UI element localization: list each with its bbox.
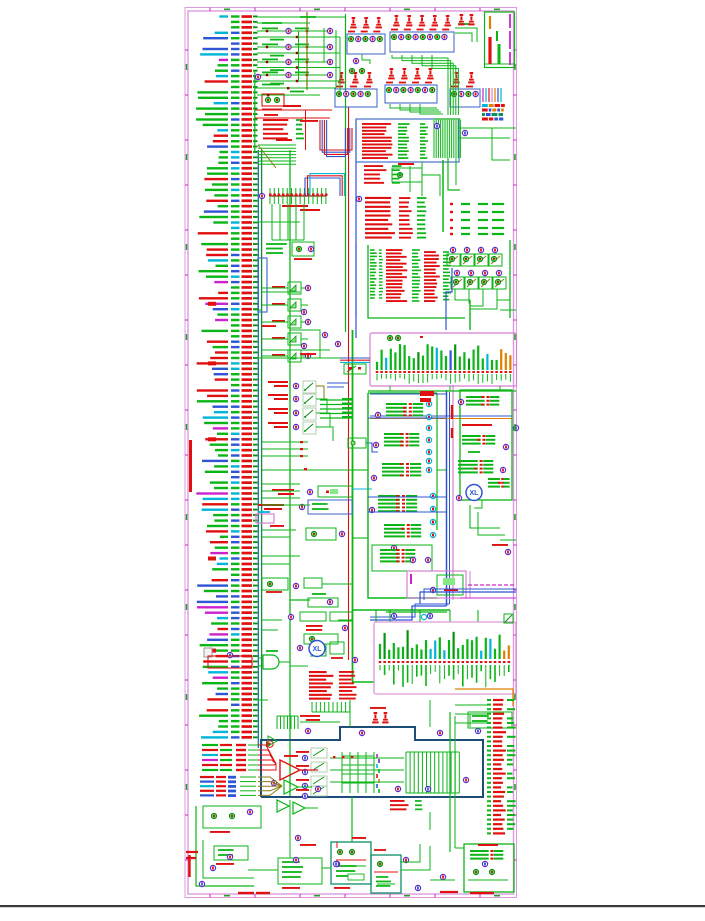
U4 right pins <box>443 251 449 253</box>
resistor ladder RN2 <box>258 144 296 146</box>
U5 cluster1 <box>386 403 407 405</box>
ram matrix <box>309 671 327 673</box>
alarm net box <box>208 656 252 668</box>
relay array K2-K5 <box>268 381 288 383</box>
net list block <box>365 197 391 199</box>
blue S wire <box>446 268 452 330</box>
top extra texts <box>300 120 318 122</box>
right list feeds <box>455 704 487 706</box>
teal box2 wires <box>377 883 395 885</box>
violet ref 8 <box>255 74 260 79</box>
pre comb <box>276 716 278 729</box>
olive bus x307 <box>306 12 308 90</box>
timer cluster U7 <box>290 599 310 601</box>
input list A <box>202 744 218 746</box>
transistor cells T-row <box>450 247 455 252</box>
border frame outer <box>185 8 517 898</box>
U5 cluster3 <box>382 463 404 465</box>
mid-left box <box>306 528 336 540</box>
U5 cluster5 <box>384 524 405 526</box>
ladder circled refs <box>286 28 291 33</box>
wire color legend <box>482 88 484 102</box>
navy comb block <box>405 752 407 793</box>
wire bundle RB2 <box>305 178 340 196</box>
opamp A1 <box>280 760 300 780</box>
inline jumper box <box>204 648 212 657</box>
switch S1 <box>344 364 366 374</box>
U6 cluster1 <box>466 396 485 398</box>
regulator T1 <box>331 842 371 884</box>
xl2 refs <box>352 657 357 662</box>
connector CN1 <box>370 333 517 386</box>
logic cluster A <box>266 243 287 245</box>
link wires B <box>352 469 368 471</box>
checker icon <box>535 616 537 618</box>
navy cross wires <box>330 757 404 759</box>
U6 right wires <box>512 429 516 431</box>
pre refs <box>305 728 310 733</box>
transistor bank Q6 group <box>455 72 459 74</box>
svg-text:XL: XL <box>470 490 480 497</box>
relay K1 cluster <box>392 168 422 182</box>
green bus D x352 <box>352 330 354 682</box>
green rail y612 <box>386 611 447 613</box>
cyan ref circles 2 <box>430 493 435 498</box>
left net label column <box>219 15 228 17</box>
transistor bank Q1 group <box>352 17 356 19</box>
navy refs <box>315 786 320 791</box>
U6 cluster3 <box>458 460 478 462</box>
mcu block U5 <box>368 393 437 598</box>
ladder joins <box>335 30 337 88</box>
ic U3 box <box>356 119 459 162</box>
logic B2 <box>308 500 352 514</box>
ram comb <box>311 702 313 712</box>
bank2 staircase wires <box>392 55 448 115</box>
orange exit wire <box>455 689 513 706</box>
page bottom edge <box>0 905 705 907</box>
magenta dash right <box>468 584 472 586</box>
pa block U6 <box>460 390 512 500</box>
J2 ref circle <box>259 193 264 198</box>
post navy rows <box>390 800 405 802</box>
psu box <box>464 844 514 892</box>
margin label 2 <box>188 855 191 877</box>
navy color stubs <box>376 754 378 758</box>
green enclosure left <box>255 87 301 89</box>
title block <box>485 12 515 68</box>
CN1 drops <box>389 386 391 391</box>
bottom extra wires <box>248 869 262 871</box>
red bus x348 <box>348 107 350 660</box>
U4 red matrix <box>386 249 403 251</box>
sub box B3 <box>203 806 261 828</box>
U6 label <box>462 424 492 426</box>
comb drop <box>448 158 460 190</box>
caption bottom right <box>440 891 458 893</box>
diode feed wires <box>262 287 284 289</box>
right green vert x510 <box>509 240 511 318</box>
bottom caption mid <box>300 844 316 846</box>
tr corner stacks <box>460 14 464 16</box>
opamp A3 <box>277 800 289 812</box>
mid-left wires1 <box>262 441 308 443</box>
CN1 bottom rails <box>368 390 516 392</box>
caption bottom left <box>238 892 254 894</box>
transistor bank Q2 group <box>395 15 399 17</box>
connector J2 <box>270 195 326 197</box>
io bus pair <box>257 150 259 748</box>
ic U4 box <box>368 245 465 318</box>
spare gate XL1 <box>466 485 482 501</box>
ic U2 pin rows <box>263 119 288 121</box>
mid refs <box>322 332 327 337</box>
left wire tree <box>196 806 254 886</box>
mid wires <box>290 330 320 358</box>
magenta box M1 <box>407 571 466 598</box>
cn2 drop wires <box>389 610 391 622</box>
frame ruler ticks <box>185 49 188 51</box>
diode array D1-D5 <box>272 286 285 288</box>
right bus pair <box>449 712 451 852</box>
U6 red tag <box>420 391 434 396</box>
u3 sub rows <box>364 165 383 167</box>
long links mid2 <box>262 469 352 471</box>
net list ref <box>356 196 361 201</box>
bank5 staircase wires <box>390 104 437 108</box>
and gate G1 <box>263 655 279 669</box>
ladder extra rows <box>257 87 336 89</box>
spare gate XL2 <box>309 641 325 657</box>
cn2 icon <box>539 617 541 619</box>
top first row labels <box>262 22 282 24</box>
comb right wires <box>459 127 516 129</box>
input wire ladder <box>257 30 332 32</box>
wire bundle RB1 <box>320 120 352 150</box>
sensor B1 <box>348 438 366 448</box>
green bus B x290 <box>289 150 291 797</box>
connector CN2 <box>374 622 516 694</box>
vertical comb bus <box>433 120 435 158</box>
red wire row <box>255 109 332 111</box>
navy switches <box>311 748 327 758</box>
mux row <box>262 578 288 590</box>
U5 cluster4 <box>378 495 400 497</box>
U5 inner box <box>372 545 432 571</box>
blue bus x356 <box>355 120 357 338</box>
blue route down <box>370 606 447 620</box>
ram label <box>300 715 320 717</box>
bottom cluster BL1 <box>214 846 248 860</box>
tr corner wires <box>455 28 477 42</box>
transistor bank Q5 group <box>390 68 394 70</box>
U4 left pin comb <box>370 249 375 251</box>
pink part P1 <box>256 514 274 523</box>
pink bus x453 <box>452 385 454 600</box>
magenta link <box>460 597 516 599</box>
j2 drops <box>271 204 273 240</box>
pre green box <box>468 712 512 728</box>
transistor bank Q4 group <box>340 72 344 74</box>
blue entry wires <box>420 592 516 604</box>
mid-left wires3 <box>262 529 296 531</box>
blue bus pair right <box>446 390 448 606</box>
ladder risers <box>298 31 300 81</box>
navy grid wires <box>341 752 343 793</box>
green bus C x345 <box>345 14 347 332</box>
frame tick labels <box>186 64 188 70</box>
bottom feed wires <box>429 812 431 830</box>
comb ref <box>434 123 439 128</box>
navy green tri <box>268 736 277 746</box>
signal table <box>442 160 444 232</box>
opamp A2 <box>284 780 298 794</box>
pink route down <box>452 598 454 600</box>
right mid wires <box>470 505 500 528</box>
xtal Y1 <box>318 486 352 497</box>
teal box wires <box>336 842 338 848</box>
bottom wires mid <box>351 832 353 842</box>
input list B <box>200 776 214 778</box>
border frame inner <box>188 11 514 894</box>
U5 cluster2 <box>384 433 404 435</box>
long links mid3 <box>262 555 300 557</box>
green arrows <box>342 398 352 400</box>
mid-left wires2 <box>262 483 300 485</box>
cyan ref circles <box>426 401 431 406</box>
pre stacks <box>374 712 378 714</box>
bank1 drop wires <box>362 54 370 64</box>
blue rail y394 <box>370 393 446 395</box>
cross wires U5 <box>368 417 446 419</box>
shield box U8 <box>261 727 483 797</box>
margin label vertical <box>189 440 192 492</box>
link wires A <box>255 221 271 223</box>
bundle to right <box>340 357 370 359</box>
T-row converge wires <box>455 289 470 300</box>
io block box <box>258 258 267 312</box>
output list right <box>487 699 491 701</box>
cn2 feed wires <box>352 609 450 611</box>
U6 cluster4 <box>488 478 500 480</box>
small pcb icon <box>504 614 513 623</box>
pre wires <box>300 721 340 723</box>
cn2 ref circles <box>391 613 396 618</box>
mid bottom cluster <box>278 858 322 884</box>
long links mid <box>262 349 330 351</box>
U6 cluster2 <box>462 435 481 437</box>
regulator T2 <box>371 855 401 893</box>
green bus A x254 <box>254 70 256 152</box>
U3 green pins <box>420 123 425 125</box>
svg-text:XL: XL <box>313 646 323 653</box>
link wires C <box>290 665 308 667</box>
bottom circles <box>333 861 338 866</box>
relay fan wires <box>320 399 352 401</box>
resistor box RN1 <box>262 94 284 106</box>
U3 red rows <box>362 123 391 125</box>
